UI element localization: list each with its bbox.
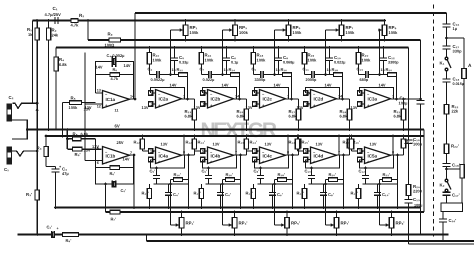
svg-text:R₁₁': R₁₁' — [246, 191, 253, 196]
svg-text:R₁₈: R₁₈ — [332, 67, 339, 72]
resistor R&#8321;&#8325;' band3b — [296, 135, 309, 155]
svg-text:22k: 22k — [452, 109, 459, 114]
resistor R&#8321;&#8326; band2 shunt — [199, 46, 214, 74]
svg-text:25V: 25V — [117, 140, 124, 145]
svg-text:K₂: K₂ — [440, 183, 445, 188]
svg-text:13: 13 — [97, 89, 101, 93]
resistor R&#8321;&#8326;' band2b series — [223, 172, 241, 184]
wire band4 feedback loop — [306, 88, 340, 100]
svg-text:RP₉': RP₉' — [396, 221, 405, 226]
svg-text:R₂₂': R₂₂' — [451, 144, 459, 149]
svg-text:R₂: R₂ — [79, 13, 84, 18]
svg-text:13V: 13V — [265, 142, 272, 147]
svg-text:IC2d: IC2d — [314, 97, 324, 102]
resistor R6 — [96, 67, 134, 81]
svg-text:C₅': C₅' — [121, 188, 127, 193]
svg-text:C₁₂': C₁₂' — [359, 169, 366, 174]
svg-text:13V: 13V — [213, 142, 220, 147]
svg-text:0.022µ: 0.022µ — [203, 78, 215, 82]
svg-text:R₁₅': R₁₅' — [302, 140, 309, 145]
resistor RA — [462, 69, 466, 165]
wire wiper drop band1 top — [171, 30, 180, 75]
wire IC1b output — [130, 154, 136, 157]
potentiometer RP&#8321;' band1b bottom — [175, 211, 194, 236]
svg-text:2200: 2200 — [413, 189, 423, 194]
resistor R&#8321;&#8325;' band5b input — [343, 135, 354, 151]
wire R4 to mid bus — [55, 76, 57, 130]
svg-text:R₅': R₅' — [75, 152, 81, 157]
wire band2 output — [234, 98, 247, 100]
svg-text:C₅': C₅' — [150, 169, 156, 174]
svg-text:R₁₈': R₁₈' — [278, 172, 286, 177]
svg-text:0.33µ: 0.33µ — [179, 61, 188, 65]
capacitor C16p — [439, 212, 456, 241]
svg-text:R₁₂': R₁₂' — [186, 140, 193, 145]
potentiometer RP&#8323; band2 top — [229, 19, 249, 41]
capacitor C&#8321;&#8320; band4 shunt — [326, 46, 345, 74]
wire band5 output — [391, 98, 404, 100]
node rail2-R2 — [47, 19, 50, 22]
svg-text:C₄': C₄' — [173, 192, 179, 197]
svg-text:100k: 100k — [308, 58, 318, 63]
resistor R8p — [63, 233, 79, 243]
op-amp IC1b — [84, 140, 133, 165]
svg-text:13V: 13V — [370, 142, 377, 147]
potentiometer RP1 band1 top — [179, 19, 199, 41]
wire band1b chain — [154, 183, 189, 185]
svg-text:6.8k: 6.8k — [237, 114, 245, 119]
capacitor C&#8324; band1 series — [148, 67, 165, 83]
op-amp IC2d band4 top — [297, 83, 344, 111]
capacitor C&#8321;&#8323; band5 series — [357, 67, 373, 83]
wire band4b input — [298, 150, 311, 152]
wire band5 series to output — [395, 75, 398, 101]
svg-text:C₁: C₁ — [4, 167, 9, 172]
resistor R&#8321;&#8322;' band2b input — [186, 135, 197, 151]
capacitor C&#8321;&#8322; band5 shunt — [380, 46, 399, 74]
wire wiper drop band3 top — [275, 30, 283, 75]
resistor R&#8321;&#8329; band4 shunt — [302, 46, 317, 74]
svg-text:R₂₂': R₂₂' — [383, 172, 391, 177]
resistor R&#8321;&#8326;' band1b series — [171, 172, 189, 184]
potentiometer RP&#8323;' band2b bottom — [228, 211, 247, 236]
wire top bus 1 — [88, 39, 421, 41]
wire band1b output drop — [187, 155, 190, 209]
resistor R&#8321;&#8322;' band1b input — [134, 135, 145, 151]
resistor R4 — [54, 48, 68, 76]
potentiometer RP&#8325; band3 top — [282, 19, 302, 41]
wire wiper drop band2 top — [223, 30, 229, 75]
svg-text:R₁₄: R₁₄ — [229, 67, 236, 72]
wire band2 series to output — [238, 75, 241, 101]
wire band1 series to output — [186, 75, 189, 101]
svg-text:100k: 100k — [190, 30, 200, 35]
wire band1b input — [143, 150, 156, 152]
wire wiper drop band4b — [324, 183, 330, 225]
wire mid bus 2 — [46, 135, 425, 137]
svg-text:10: 10 — [150, 150, 154, 154]
svg-text:0.068µ: 0.068µ — [283, 61, 294, 65]
wire band3b input — [247, 150, 260, 152]
svg-text:A: A — [468, 63, 472, 69]
svg-text:C₄': C₄' — [225, 192, 231, 197]
wire wiper drop band3b — [273, 183, 280, 225]
resistor R&#8322;&#8320;' band4b series — [326, 172, 344, 184]
svg-text:R₁₂': R₁₂' — [134, 140, 141, 145]
svg-text:C₈: C₈ — [283, 55, 288, 60]
wire wiper drop band5 top — [378, 30, 380, 75]
svg-text:13: 13 — [203, 92, 207, 96]
resistor R8 — [67, 132, 95, 141]
resistor R5p — [67, 144, 101, 157]
svg-text:14V: 14V — [325, 83, 332, 88]
svg-text:R₇': R₇' — [111, 217, 117, 222]
wire IC1b out to busA — [133, 155, 136, 209]
capacitor C&#8321;&#8320;' band5b shunt — [374, 184, 389, 209]
svg-text:100k: 100k — [346, 30, 356, 35]
svg-text:C₆': C₆' — [277, 192, 283, 197]
resistor RAp — [460, 165, 464, 204]
resistor R&#8321;&#8320; band1 shunt — [147, 46, 162, 74]
svg-text:3300p: 3300p — [388, 61, 399, 65]
capacitor C4p fb — [112, 180, 126, 193]
node band1 series-wiper — [169, 73, 172, 76]
wire band4 series to output — [341, 75, 344, 101]
wire band5 feedback loop — [360, 88, 394, 100]
capacitor C17 — [443, 44, 463, 57]
resistor R&#8321;&#8324;' band1b — [192, 135, 205, 155]
potentiometer RP&#8327; band4 top — [335, 19, 355, 41]
resistor R&#8321;&#8320;' band2b shunt — [194, 184, 204, 209]
wire wiper drop band4 top — [326, 30, 336, 75]
resistor R3 — [37, 135, 49, 167]
wire rail2 to bus1 — [87, 21, 89, 41]
svg-text:3300p: 3300p — [255, 78, 267, 82]
svg-text:RP₃': RP₃' — [239, 221, 248, 226]
node band4 series-wiper — [324, 73, 327, 76]
wire IC1a fb cap branch — [96, 62, 134, 100]
capacitor C1 — [45, 6, 67, 24]
svg-text:6.8k: 6.8k — [81, 132, 89, 137]
svg-text:R₁₄': R₁₄' — [198, 140, 206, 145]
svg-text:C₁₀': C₁₀' — [305, 169, 312, 174]
wire R5 feed — [61, 103, 64, 138]
svg-text:R₁₆': R₁₆' — [226, 172, 233, 177]
wire band3b output drop — [291, 155, 294, 209]
wire band2b output drop — [239, 155, 242, 209]
wire band4b feedback loop — [306, 155, 340, 168]
svg-text:C₁₂: C₁₂ — [388, 55, 395, 60]
svg-text:10: 10 — [254, 150, 258, 154]
wire wiper drop band1b — [169, 183, 175, 225]
resistor R&#8321;&#8328;' band3b series — [275, 172, 293, 184]
capacitor C&#8321;&#8322;' band5b series — [359, 167, 370, 184]
capacitor C&#8324;' band1b shunt — [165, 184, 179, 209]
label 14V right — [124, 63, 131, 68]
wire band1b feedback loop — [151, 155, 185, 168]
capacitor C&#8328; band3 shunt — [275, 46, 294, 74]
resistor R&#8321;&#8323;' band3b input — [238, 135, 249, 151]
wire bus1 right drop — [420, 40, 422, 235]
svg-text:330p: 330p — [453, 49, 463, 54]
capacitor C&#8328;' band3b series — [254, 167, 265, 184]
svg-text:C₁: C₁ — [53, 6, 58, 11]
svg-text:C₈': C₈' — [254, 169, 260, 174]
wire bottom bus A — [56, 207, 421, 209]
svg-text:R₁₄': R₁₄' — [250, 140, 258, 145]
svg-text:12: 12 — [203, 103, 207, 107]
resistor R6p — [96, 151, 134, 177]
svg-text:3: 3 — [255, 103, 257, 107]
label 14V ic1b — [123, 157, 130, 162]
svg-text:14V: 14V — [222, 83, 229, 88]
svg-text:100k: 100k — [153, 58, 163, 63]
wire band5b feedback loop — [360, 155, 394, 168]
svg-text:13V: 13V — [84, 148, 91, 153]
resistor R5 — [63, 96, 96, 111]
resistor R&#8321;&#8322;' band4b shunt — [297, 184, 307, 209]
wire top output rail — [135, 12, 447, 14]
svg-text:R₁₀': R₁₀' — [194, 191, 201, 196]
switch K2 — [440, 179, 452, 192]
capacitor C13 100u — [405, 197, 423, 244]
capacitor C3 — [46, 165, 69, 209]
svg-text:C₈': C₈' — [328, 192, 334, 197]
svg-text:R₁₃': R₁₃' — [351, 191, 358, 196]
resistor R22p — [444, 144, 459, 154]
svg-text:R₅: R₅ — [71, 96, 76, 101]
wire left col a — [84, 53, 86, 161]
svg-text:13V: 13V — [297, 105, 304, 110]
wire summing output — [402, 98, 422, 101]
op-amp IC4b band2b bottom — [201, 142, 238, 165]
svg-text:100k: 100k — [239, 30, 249, 35]
input jack CZ2 — [4, 147, 12, 173]
wire band3 series to output — [290, 75, 293, 101]
resistor R&#8321;&#8324;' band4b input — [289, 135, 300, 151]
svg-text:14V: 14V — [123, 157, 130, 162]
switch K1 — [440, 57, 452, 71]
svg-text:12: 12 — [97, 104, 101, 108]
wire jack1 sleeve — [12, 120, 28, 139]
wire bottom bus C — [18, 234, 449, 236]
svg-text:13V: 13V — [161, 142, 168, 147]
capacitor C&#8321;&#8321; band4 series — [303, 67, 319, 83]
wire IC1a output — [130, 98, 137, 101]
wire band1 output — [182, 98, 195, 100]
potentiometer RP&#8327;' band4b bottom — [330, 211, 349, 236]
svg-text:IC2a: IC2a — [159, 97, 169, 102]
svg-text:0.015µ: 0.015µ — [453, 82, 464, 86]
svg-text:C₆': C₆' — [202, 169, 208, 174]
resistor R&#8321;&#8324; band2 series — [216, 67, 240, 76]
svg-text:R₁₀': R₁₀' — [142, 191, 149, 196]
svg-text:14V: 14V — [274, 83, 281, 88]
op-amp IC4a band1b bottom — [149, 142, 186, 165]
potentiometer RP&#8325;' band3b bottom — [281, 211, 300, 236]
svg-text:R₁₂: R₁₂ — [177, 67, 184, 72]
svg-text:100µ: 100µ — [413, 142, 423, 147]
svg-text:24k: 24k — [52, 33, 59, 38]
svg-text:RP₇': RP₇' — [341, 221, 350, 226]
wire pot-top rail — [33, 20, 385, 22]
svg-text:IC1a: IC1a — [106, 97, 116, 102]
svg-text:C₇: C₇ — [200, 67, 205, 72]
wire midbus right drop — [423, 130, 425, 213]
svg-text:14V: 14V — [379, 83, 386, 88]
wire IC1a output riser — [134, 13, 136, 99]
capacitor C&#8325;' band1b series — [150, 167, 161, 184]
resistor R3p — [26, 190, 39, 236]
op-amp IC1a — [84, 89, 136, 113]
op-amp IC4d band4b bottom — [304, 142, 341, 165]
node band5 series-wiper — [378, 73, 381, 76]
svg-text:100k: 100k — [69, 105, 79, 110]
node band2 series-wiper — [221, 73, 224, 76]
output block K2 — [441, 203, 463, 212]
resistor R&#8321;&#8323; band1 output — [185, 99, 197, 131]
svg-text:5: 5 — [97, 147, 99, 151]
svg-text:6: 6 — [97, 161, 99, 165]
wire top bus 2 — [56, 47, 409, 49]
wire mid bus 1 — [27, 129, 424, 131]
svg-text:10: 10 — [359, 150, 363, 154]
wire band2b feedback loop — [203, 155, 237, 168]
svg-text:14V: 14V — [170, 83, 177, 88]
op-amp IC4c band3b bottom — [253, 142, 290, 165]
wire band3b chain — [258, 183, 293, 185]
svg-text:3: 3 — [151, 103, 153, 107]
svg-text:4.7µ/25V: 4.7µ/25V — [45, 12, 62, 17]
wire rail1 to C16 — [446, 13, 448, 24]
svg-text:R₂₀': R₂₀' — [329, 172, 337, 177]
svg-text:1µ: 1µ — [453, 26, 458, 31]
wire band2b chain — [206, 183, 241, 185]
wire band3 output — [286, 98, 299, 100]
resistor R&#8321;&#8327; band3 output — [289, 99, 301, 131]
node A branch — [445, 37, 464, 69]
svg-text:14V: 14V — [124, 63, 131, 68]
wire band2b input — [195, 150, 208, 152]
resistor R&#8321;&#8320;' band1b shunt — [142, 184, 152, 209]
node rail2-drop — [87, 19, 90, 22]
capacitor C&#8325; band1 shunt — [171, 46, 188, 74]
svg-text:R₁₃': R₁₃' — [238, 140, 245, 145]
resistor R&#8321;&#8321;' band3b shunt — [246, 184, 256, 209]
wire band4b output drop — [342, 155, 345, 209]
svg-text:13V: 13V — [142, 105, 149, 110]
op-amp IC5a band5b bottom — [358, 142, 395, 165]
svg-text:100k: 100k — [362, 58, 372, 63]
resistor R&#8321;&#8324;' band2b — [244, 135, 257, 155]
svg-text:C₁₈: C₁₈ — [453, 77, 460, 82]
input jack CZ1 — [7, 95, 14, 122]
capacitor C&#8329; band3 series — [252, 67, 268, 83]
svg-text:C₂: C₂ — [9, 95, 14, 100]
svg-text:100k: 100k — [205, 58, 215, 63]
svg-text:IC2b: IC2b — [211, 97, 221, 102]
capacitor C&#8326; band2 shunt — [223, 46, 238, 74]
svg-text:4.7k: 4.7k — [111, 77, 119, 81]
svg-text:0.1µ: 0.1µ — [231, 61, 238, 65]
potentiometer RP&#8329; band5 top — [378, 19, 398, 41]
wire band3b output — [286, 135, 299, 157]
svg-text:C₅: C₅ — [179, 55, 184, 60]
capacitor C&#8328;' band4b shunt — [320, 184, 334, 209]
svg-text:R₃': R₃' — [26, 192, 32, 197]
resistor R&#8322;&#8322;' band5b series — [380, 172, 398, 184]
op-amp IC2a band1 top — [142, 83, 186, 111]
svg-text:6.8k: 6.8k — [340, 114, 348, 119]
svg-text:100k: 100k — [257, 58, 267, 63]
capacitor C&#8327; band2 series — [200, 67, 216, 83]
wire band3b feedback loop — [255, 155, 289, 168]
wire band2b output — [234, 135, 247, 157]
resistor R&#8321;&#8327;' band5b — [401, 135, 413, 155]
capacitor C18p — [443, 154, 460, 180]
node Ap branch — [445, 168, 460, 171]
svg-text:R₁₄': R₁₄' — [289, 140, 297, 145]
svg-text:47µ: 47µ — [62, 171, 69, 176]
resistor R7p — [110, 210, 120, 221]
capacitor C15 100u — [405, 137, 423, 200]
svg-text:C₁₃: C₁₃ — [413, 197, 420, 202]
label node A — [468, 63, 472, 69]
svg-text:C₉: C₉ — [252, 67, 257, 72]
svg-text:C₁₁: C₁₁ — [303, 67, 310, 72]
resistor R&#8322;&#8320; band5 shunt — [356, 46, 371, 74]
resistor R20 2200 — [406, 184, 422, 196]
capacitor C17p — [443, 192, 460, 203]
wire busB left riser — [104, 183, 107, 212]
svg-text:R₈': R₈' — [66, 238, 72, 243]
wire jack1 tip — [13, 102, 39, 108]
wire band1b output — [182, 135, 195, 157]
wire IC1b feed drop — [66, 128, 69, 149]
svg-text:R₉: R₉ — [108, 32, 113, 37]
resistor R&#8321;&#8325; band2 output — [237, 99, 249, 131]
svg-text:6.8k: 6.8k — [59, 62, 67, 67]
svg-text:100µ: 100µ — [399, 100, 409, 105]
svg-text:C₄ 0.002µ: C₄ 0.002µ — [107, 53, 126, 58]
svg-text:100µ: 100µ — [414, 204, 422, 208]
svg-text:R₆: R₆ — [113, 67, 118, 72]
svg-text:6.8k: 6.8k — [394, 114, 402, 119]
svg-text:680p: 680p — [360, 78, 369, 82]
svg-text:R₁₂': R₁₂' — [297, 191, 304, 196]
svg-text:13V: 13V — [246, 105, 253, 110]
wire band4b output — [337, 135, 350, 157]
resistor R2 — [46, 21, 58, 131]
resistor R&#8321;&#8322; band1 series — [164, 67, 188, 76]
node band3 series-wiper — [273, 73, 276, 76]
capacitor C&#8324;' band2b shunt — [217, 184, 231, 209]
wire wiper drop band2b — [221, 183, 228, 225]
wire band4b chain — [309, 183, 344, 185]
svg-text:R₈: R₈ — [73, 132, 78, 137]
dashed panel divider — [433, 5, 435, 237]
resistor R&#8321;&#8328; band3 shunt — [251, 46, 266, 74]
op-amp IC3a band5 top — [351, 83, 395, 111]
svg-text:13V: 13V — [351, 105, 358, 110]
svg-text:C₆: C₆ — [231, 55, 236, 60]
svg-text:IC2c: IC2c — [263, 97, 273, 102]
svg-text:R₁₆': R₁₆' — [174, 172, 181, 177]
svg-text:3: 3 — [360, 103, 362, 107]
capacitor C2fb — [107, 53, 126, 67]
svg-text:K₁: K₁ — [440, 61, 445, 66]
svg-text:C₁₃: C₁₃ — [357, 67, 364, 72]
